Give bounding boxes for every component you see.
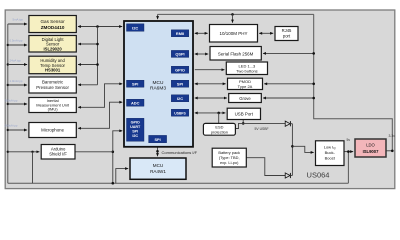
LED and buttons [226,62,267,75]
pin GPIO UART SPI I2C block [127,118,145,141]
node Grove rail junction [312,97,315,100]
wire MCU USBFS to USB port [195,112,226,114]
svg-text:Shield I/F: Shield I/F [49,152,67,157]
wire MCU comm link down to RA4W1 [157,147,159,156]
node humidity sensor I2C junction [96,63,99,66]
wire top 3.3V rail [158,13,314,15]
svg-text:USB Port: USB Port [235,112,254,117]
node light sensor I2C junction [96,43,99,46]
wire PMOD to 3.3V rail [264,83,313,85]
svg-text:RA6M3: RA6M3 [150,86,166,92]
node LDO output junction [391,150,394,153]
svg-text:380uA typ: 380uA typ [5,99,18,103]
svg-text:Buck-: Buck- [325,150,336,155]
svg-text:Barometric: Barometric [42,80,64,85]
wire serial flash to 3.3V rail [263,52,314,54]
node arduino data junction [112,151,115,154]
pin SPI left [127,80,145,87]
wire D1 cathode to power mux bus [290,123,292,125]
svg-text:GPIO: GPIO [175,67,185,72]
wire left power bus [7,24,9,183]
wire battery to diode D2 [246,158,285,176]
svg-text:ADC: ADC [131,100,140,105]
wire power mux vertical bus [291,124,293,176]
serial flash [210,47,261,61]
wire ESD protection tap [218,113,220,124]
wire right 3.3V rail down [314,14,393,150]
wire power mux to buck-boost input [292,146,313,152]
wire I2C vertical bus [97,27,99,85]
gas sensor ZMOD4410 [29,16,76,33]
svg-text:I2C: I2C [132,134,138,138]
wire USB port 5V drop [242,120,244,124]
svg-text:24uA typ: 24uA typ [10,59,22,63]
svg-text:exp. Li-po): exp. Li-po) [220,160,239,165]
wire humidity sensor left power tap [8,64,27,66]
svg-text:5V USBF: 5V USBF [255,127,269,131]
wire MCU SPI to PMOD [195,83,226,85]
svg-text:ISL9007: ISL9007 [363,149,380,154]
svg-text:UART: UART [130,125,141,129]
wire ADC net MCU to microphone [78,102,122,128]
svg-text:Serial Flash 256M: Serial Flash 256M [218,51,254,56]
microphone [29,123,76,138]
wire bottom power bus [8,182,349,184]
node power mux junction [291,145,294,148]
node arduino power tap [7,151,9,153]
svg-text:10/100M PHY: 10/100M PHY [219,31,247,36]
battery pack [212,148,246,167]
ethernet PHY [210,25,258,43]
inertial measurement unit [29,98,76,113]
wire 5V riser to bottom bus [347,152,349,184]
USB port [227,108,260,119]
MCU RA4W1 [130,158,186,179]
pin SPI bottom [149,135,167,142]
wire LDO 3.3V output [386,150,392,152]
svg-text:GPIO: GPIO [131,121,140,125]
svg-text:Pressure Sensor: Pressure Sensor [36,85,69,90]
MCU RA6M3 [124,21,193,147]
wire rail drop into MCU top [157,14,159,19]
svg-text:0.5mA typ: 0.5mA typ [10,38,23,42]
node comm link junction [156,150,159,153]
node light sensor power tap [7,44,9,46]
svg-text:5v: 5v [347,138,351,142]
wire I2C net gas sensor to MCU [78,26,122,28]
pin ADC left [127,99,145,106]
svg-text:port: port [283,33,291,38]
diode D2 battery [285,173,290,178]
Grove connector [229,94,262,103]
svg-text:RMII: RMII [176,31,184,36]
pin I2C left [127,24,145,32]
wire humidity sensor I2C branch [78,64,98,66]
barometric pressure sensor [29,77,76,93]
node serial flash rail junction [312,52,315,55]
svg-text:Two buttons: Two buttons [236,68,258,73]
wire SPI net MCU to IMU [78,84,122,108]
wire arduino tap down to bottom bus [32,152,34,183]
RJ45 port [275,27,298,41]
node 5V output junction [347,150,350,153]
node IMU power tap [7,103,9,105]
node GPIO net bottom bus junction [112,182,115,185]
node PMOD rail junction [312,83,315,86]
svg-text:1.0mA typ: 1.0mA typ [10,79,23,83]
wire buck-boost 5V output to LDO [344,151,353,153]
wire arduino shield right data wire [75,151,113,153]
svg-text:260uA typ: 260uA typ [5,124,18,128]
node rail-PHY junction [231,13,234,16]
wire PHY to RJ45 [259,32,273,34]
svg-text:I2C: I2C [177,96,183,101]
node microphone power tap [7,129,9,131]
svg-text:ISL29020: ISL29020 [44,46,63,51]
pin SPI right [171,80,189,87]
buck-boost regulator [316,141,345,166]
wire gas sensor left power tap [8,23,27,25]
pin QSPI [171,50,189,57]
wire 5V jog to ESD protection [235,123,243,128]
svg-text:US064: US064 [307,171,330,180]
diagram background frame [5,10,395,189]
wire MCU GPIO to LEDs [195,69,225,71]
pin USBFS [171,109,189,116]
svg-text:(IMU): (IMU) [48,107,59,112]
arduino shield interface [41,145,75,160]
wire light sensor I2C branch [78,43,98,45]
wire barometric sensor I2C branch [78,84,98,86]
svg-text:SPI: SPI [154,137,160,142]
svg-text:QSPI: QSPI [175,52,184,57]
node ESD tap junction [217,112,220,115]
svg-text:I2C: I2C [132,25,138,30]
pin I2C right [171,95,189,102]
node barometric sensor power tap [7,84,9,86]
svg-text:Communications I/F: Communications I/F [162,150,198,155]
pin RMII [171,30,189,37]
wire 5V USB to diode D1 [243,122,285,124]
svg-text:Boost: Boost [325,155,336,160]
svg-text:MCU: MCU [153,163,163,168]
node 5V USB junction [242,122,245,125]
wire MCU QSPI to serial flash [195,53,208,55]
humidity temp sensor HS3001 [29,56,76,73]
node arduino wire to bottom bus junction [31,151,33,153]
wire barometric sensor left power tap [8,84,27,86]
svg-text:ZMOD4410: ZMOD4410 [41,25,65,30]
wire RA4W1 feed from bottom bus [116,169,128,184]
svg-text:3.3v: 3.3v [389,134,396,138]
svg-text:SPI: SPI [177,81,183,86]
diode D1 USB [285,121,290,126]
svg-text:Grove: Grove [239,96,251,101]
svg-text:Type 2A: Type 2A [238,84,253,89]
svg-text:Gas Sensor: Gas Sensor [40,19,65,24]
svg-text:MCU: MCU [153,80,164,86]
ESD protection [203,123,235,135]
svg-text:Microphone: Microphone [41,128,64,133]
wire microphone left power tap [8,129,27,131]
svg-text:HS3001: HS3001 [45,68,61,73]
wire GPIO net MCU down to bottom bus [113,131,122,183]
pin GPIO right [171,66,189,73]
PMOD connector [228,78,263,89]
svg-text:LDO: LDO [366,143,375,148]
wire Grove to 3.3V rail [263,97,314,99]
wire IMU left power tap [8,103,27,105]
LDO ISL9007 [355,139,386,157]
svg-text:5mA typ: 5mA typ [13,17,24,21]
svg-text:RA4W1: RA4W1 [150,169,166,174]
wire arduino shield left power tap [8,151,40,153]
wire rail drop into PHY top [232,14,234,22]
wire light sensor left power tap [8,44,27,46]
svg-text:USBFS: USBFS [174,111,186,115]
wire D2 cathode to power mux bus [290,175,292,177]
node I2C bus top junction [96,25,99,28]
wire MCU RMII to PHY [195,32,208,34]
svg-text:SPI: SPI [132,130,138,134]
svg-text:SPI: SPI [132,81,138,86]
svg-text:protection: protection [211,129,228,134]
node humidity sensor power tap [7,63,9,65]
digital light sensor ISL29020 [29,36,76,53]
wire MCU I2C to Grove [195,97,227,99]
